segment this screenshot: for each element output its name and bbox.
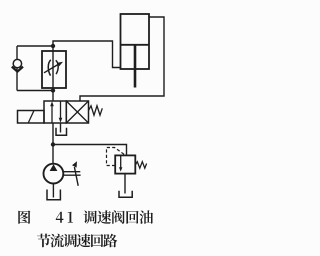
relief valve internal arrow (down)	[119, 156, 122, 172]
flow valve adjustability arrow	[44, 62, 63, 73]
wire: junction to cylinder rod-side port	[53, 41, 121, 68]
tank symbol under pump	[47, 190, 60, 200]
node: pump outlet junction	[51, 142, 55, 146]
tank symbol under relief valve	[119, 191, 132, 198]
directional valve body: left (actuated) square	[44, 101, 66, 123]
cylinder piston rod	[134, 45, 137, 88]
relief valve spring (W)	[135, 162, 146, 169]
node: bottom junction of parallel branch	[51, 88, 55, 92]
cylinder body	[121, 14, 150, 69]
relief valve pilot line (dashed)	[107, 148, 126, 166]
directional valve left square: B-T arrow (down)	[59, 102, 63, 123]
wire: pump outlet vertical	[52, 145, 54, 164]
tank symbol under directional valve	[56, 128, 67, 136]
caption line 1: Fig 41 title	[18, 210, 153, 224]
check valve V1 (ball in seat)	[12, 59, 23, 71]
flow control (speed-regulating) valve body	[42, 51, 66, 88]
cylinder piston	[121, 44, 150, 46]
node: top junction of parallel branch	[51, 44, 55, 48]
directional valve right square: crossed paths X	[66, 101, 88, 123]
wire: main axis through flow valve	[52, 46, 54, 101]
wire: check-valve branch top horizontal	[17, 45, 53, 47]
pump shaft double line	[63, 172, 80, 176]
directional valve return spring (W)	[89, 106, 103, 115]
wire: supply line to relief valve	[53, 145, 127, 156]
wire: T port down	[60, 123, 62, 133]
directional valve body: right (rest) square	[66, 101, 88, 123]
wire: pump inlet down	[52, 184, 54, 198]
flow valve throttle arcs	[48, 60, 58, 76]
pump outlet triangle (filled, up)	[50, 164, 58, 171]
wire: cylinder cap-side port to right bus	[80, 17, 164, 101]
wire: check-valve branch bottom horizontal	[17, 90, 53, 92]
pump P1 circle	[44, 164, 64, 184]
relief valve body	[115, 155, 135, 173]
wire: check-valve branch left vertical	[16, 46, 18, 91]
caption line 2	[37, 234, 117, 248]
directional valve solenoid	[18, 111, 45, 124]
wire: P port down to pump node	[52, 123, 54, 145]
wire: relief valve outlet down	[124, 174, 126, 194]
directional valve left square: P-A arrow (up)	[50, 101, 54, 122]
pump variable-displacement arrow	[72, 161, 78, 186]
